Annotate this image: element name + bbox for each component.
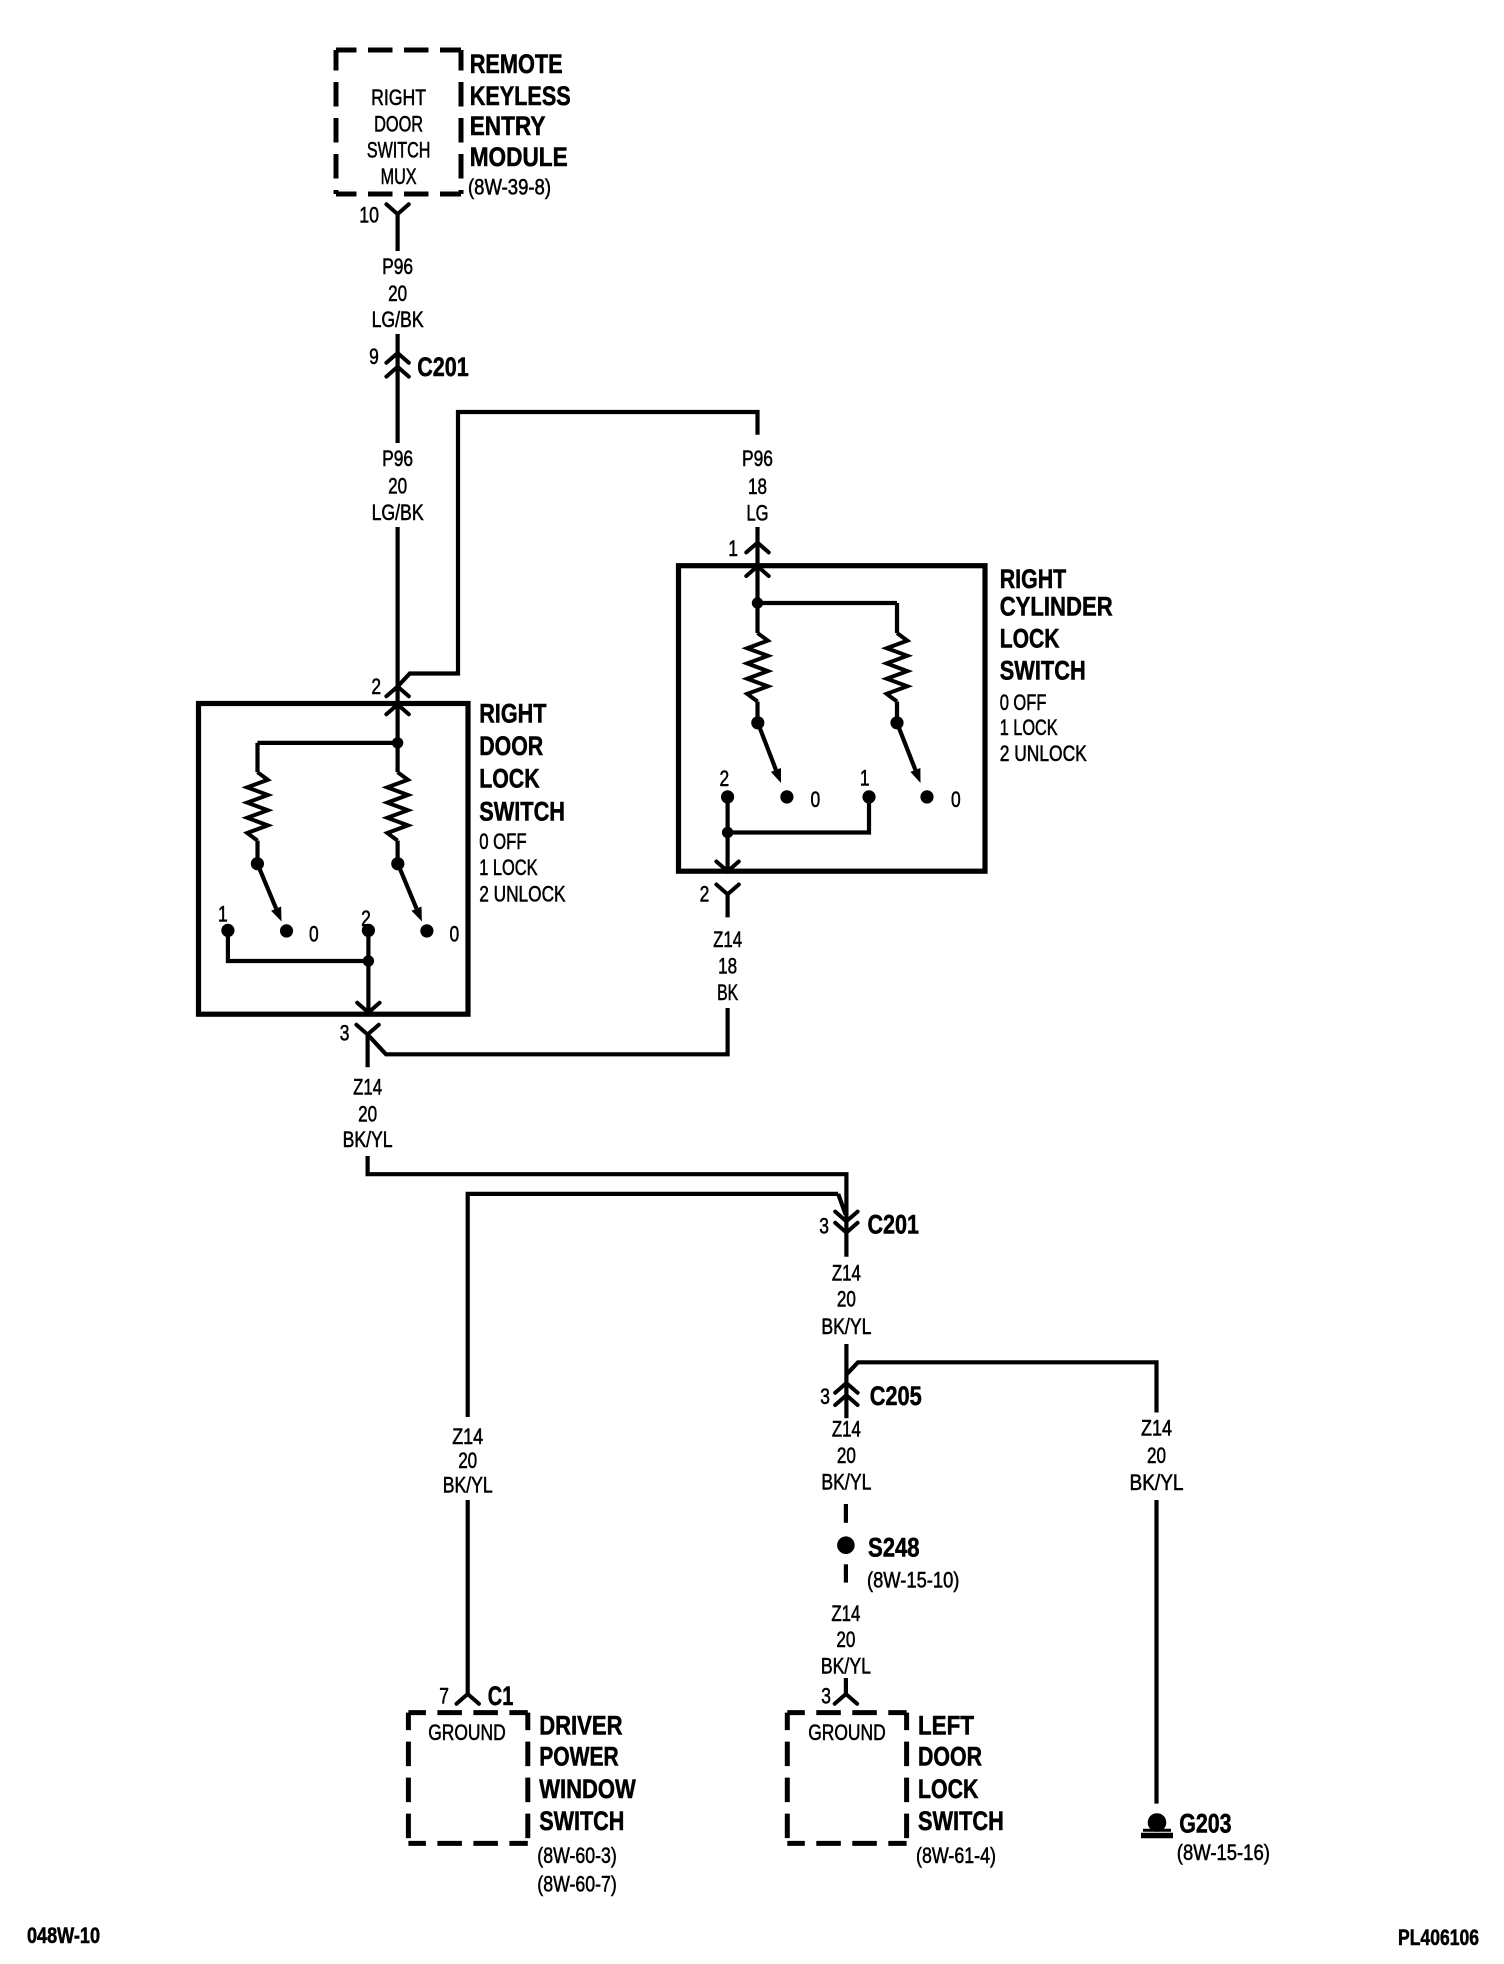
svg-text:20: 20	[388, 281, 407, 306]
svg-text:P96: P96	[742, 446, 773, 471]
resistor (left, cylinder lock switch)	[747, 603, 768, 717]
svg-text:RIGHT: RIGHT	[1000, 564, 1067, 594]
svg-text:C201: C201	[868, 1210, 920, 1240]
svg-text:2: 2	[700, 882, 710, 907]
svg-text:SWITCH: SWITCH	[367, 138, 431, 163]
svg-text:20: 20	[458, 1448, 477, 1473]
svg-text:(8W-15-16): (8W-15-16)	[1177, 1840, 1270, 1865]
wire: contact 1 to output node	[728, 803, 869, 833]
svg-text:20: 20	[1147, 1443, 1166, 1468]
svg-text:20: 20	[388, 473, 407, 498]
svg-text:LG/BK: LG/BK	[372, 307, 424, 332]
svg-text:3: 3	[340, 1020, 350, 1045]
contact 2 (cylinder lock switch)	[719, 766, 734, 804]
svg-text:Z14: Z14	[832, 1261, 861, 1286]
connector C201 pin 9 (in-line)	[369, 334, 469, 443]
svg-text:BK/YL: BK/YL	[343, 1127, 393, 1152]
svg-text:0 OFF: 0 OFF	[1000, 690, 1047, 715]
wire Z14 20 BK/YL to left door lock switch	[821, 1564, 871, 1694]
svg-text:1: 1	[728, 536, 738, 561]
svg-text:1 LOCK: 1 LOCK	[1000, 715, 1058, 740]
svg-text:CYLINDER: CYLINDER	[1000, 592, 1113, 622]
switch arm (left, cylinder lock switch)	[751, 716, 781, 783]
svg-text:2: 2	[361, 906, 371, 931]
svg-text:3: 3	[819, 1213, 829, 1238]
svg-text:Z14: Z14	[832, 1416, 861, 1441]
resistor (right, door lock switch)	[387, 743, 408, 858]
svg-text:Z14: Z14	[452, 1424, 483, 1449]
node: output junction (cylinder lock switch)	[722, 827, 733, 838]
connector pin 10 of module	[359, 203, 409, 228]
svg-text:BK/YL: BK/YL	[821, 1314, 871, 1339]
svg-text:MODULE: MODULE	[470, 142, 568, 172]
svg-text:PL406106: PL406106	[1398, 1925, 1479, 1950]
svg-text:(8W-60-7): (8W-60-7)	[537, 1872, 617, 1897]
wire Z14 below C205	[821, 1416, 871, 1523]
wire branch Z14 to ground G203	[846, 1362, 1183, 1803]
svg-text:(8W-61-4): (8W-61-4)	[916, 1843, 996, 1868]
svg-text:WINDOW: WINDOW	[539, 1774, 636, 1804]
svg-text:0: 0	[951, 787, 961, 812]
component box: DRIVER POWER WINDOW SWITCH (GROUND, dashed)	[408, 1713, 527, 1844]
svg-text:1: 1	[860, 765, 870, 790]
contact 0 right (cylinder lock switch)	[920, 787, 960, 812]
splice S248 (8W-15-10)	[837, 1533, 959, 1593]
svg-text:SWITCH: SWITCH	[1000, 656, 1086, 686]
svg-text:20: 20	[837, 1443, 856, 1468]
svg-text:LEFT: LEFT	[918, 1711, 974, 1741]
label: RIGHT DOOR LOCK SWITCH 0 OFF 1 LOCK 2 UNLOCK	[479, 699, 566, 907]
svg-text:RIGHT: RIGHT	[371, 85, 426, 110]
svg-text:2: 2	[371, 674, 381, 699]
svg-text:Z14: Z14	[831, 1601, 860, 1626]
svg-text:REMOTE: REMOTE	[470, 49, 563, 79]
resistor (left, door lock switch)	[247, 743, 268, 858]
svg-text:7: 7	[439, 1683, 449, 1708]
connector C201 pin 3 (in-line)	[819, 1210, 919, 1240]
svg-text:2 UNLOCK: 2 UNLOCK	[1000, 741, 1087, 766]
svg-text:S248: S248	[868, 1533, 920, 1563]
svg-text:18: 18	[748, 474, 767, 499]
svg-text:DRIVER: DRIVER	[539, 1711, 622, 1741]
component box: LEFT DOOR LOCK SWITCH (GROUND, dashed)	[787, 1713, 906, 1844]
svg-text:SWITCH: SWITCH	[539, 1806, 624, 1836]
svg-text:Z14: Z14	[713, 927, 742, 952]
svg-text:20: 20	[836, 1627, 855, 1652]
wire Z14 to C201 pin 3	[368, 1156, 847, 1257]
svg-text:P96: P96	[382, 254, 413, 279]
svg-text:0: 0	[309, 922, 319, 947]
label: RIGHT CYLINDER LOCK SWITCH 0 OFF 1 LOCK 2 UNLOCK	[1000, 564, 1113, 766]
wire branch Z14 to driver power window switch	[443, 1194, 846, 1694]
svg-text:3: 3	[821, 1683, 831, 1708]
svg-text:DOOR: DOOR	[918, 1742, 982, 1772]
contact 0 left (cylinder lock switch)	[780, 787, 820, 812]
svg-text:GROUND: GROUND	[428, 1720, 506, 1745]
svg-text:(8W-60-3): (8W-60-3)	[537, 1843, 617, 1868]
svg-text:DOOR: DOOR	[374, 112, 423, 137]
wire P96 20 LG/BK below C201	[372, 446, 424, 687]
svg-text:SWITCH: SWITCH	[479, 797, 565, 827]
svg-text:BK/YL: BK/YL	[821, 1470, 871, 1495]
svg-text:10: 10	[359, 203, 379, 228]
svg-text:9: 9	[369, 344, 379, 369]
svg-text:LOCK: LOCK	[1000, 624, 1060, 654]
contact 0 right (door lock switch)	[420, 922, 459, 947]
svg-text:048W-10: 048W-10	[27, 1923, 100, 1948]
module: RIGHT DOOR SWITCH MUX (dashed box)	[336, 50, 461, 194]
svg-text:0: 0	[449, 922, 459, 947]
wire: contact 1 to output node	[228, 937, 369, 961]
svg-text:3: 3	[820, 1384, 830, 1409]
contact 1 (cylinder lock switch)	[860, 765, 876, 803]
svg-text:1: 1	[218, 901, 228, 926]
svg-text:LOCK: LOCK	[918, 1774, 979, 1804]
svg-text:Z14: Z14	[353, 1074, 382, 1099]
svg-text:18: 18	[718, 954, 737, 979]
svg-text:BK/YL: BK/YL	[443, 1472, 493, 1497]
svg-text:SWITCH: SWITCH	[918, 1806, 1004, 1836]
label: DRIVER POWER WINDOW SWITCH (8W-60-3)(8W-60-7)	[537, 1711, 636, 1897]
svg-text:BK: BK	[717, 980, 738, 1005]
svg-text:LOCK: LOCK	[479, 764, 540, 794]
connector C1 pin 7 of driver power window switch	[439, 1681, 513, 1711]
connector pin 3 of right door lock switch	[340, 1020, 379, 1045]
svg-text:20: 20	[358, 1102, 377, 1127]
contact 0 left (door lock switch)	[280, 922, 319, 947]
svg-text:C1: C1	[488, 1681, 514, 1711]
svg-text:C201: C201	[417, 352, 469, 382]
connector pin 1 of right cylinder lock switch	[728, 536, 769, 576]
svg-text:1 LOCK: 1 LOCK	[479, 855, 538, 880]
svg-text:DOOR: DOOR	[479, 731, 543, 761]
svg-text:2 UNLOCK: 2 UNLOCK	[479, 882, 566, 907]
svg-text:(8W-15-10): (8W-15-10)	[867, 1568, 959, 1593]
connector pin 2 of right door lock switch	[371, 674, 408, 714]
wire Z14 20 BK/YL between C201 and C205	[821, 1261, 871, 1382]
connector C205 pin 3 (in-line)	[820, 1381, 921, 1418]
svg-text:RIGHT: RIGHT	[479, 699, 547, 729]
switch arm (left, door lock switch)	[251, 857, 282, 921]
svg-text:LG/BK: LG/BK	[372, 500, 424, 525]
sheet number 048W-10	[27, 1923, 100, 1948]
contact 1 (door lock switch)	[218, 901, 234, 937]
label: REMOTE KEYLESS ENTRY MODULE (8W-39-8)	[468, 49, 571, 200]
sheet code PL406106	[1398, 1925, 1479, 1950]
wire P96 20 LG/BK from module pin 10	[372, 214, 424, 332]
wire branch P96 18 LG to right cylinder lock switch	[398, 412, 773, 687]
connector pin 3 of left door lock switch	[821, 1683, 857, 1708]
switch arm (right, door lock switch)	[391, 857, 422, 921]
svg-text:BK/YL: BK/YL	[1130, 1470, 1184, 1495]
switch arm (right, cylinder lock switch)	[890, 716, 920, 783]
svg-text:C205: C205	[870, 1381, 922, 1411]
label: LEFT DOOR LOCK SWITCH (8W-61-4)	[916, 1711, 1004, 1868]
contact 2 (door lock switch)	[361, 906, 375, 937]
wire Z14 18 BK from cylinder switch	[368, 927, 742, 1054]
svg-text:G203: G203	[1179, 1809, 1231, 1839]
svg-text:POWER: POWER	[539, 1742, 619, 1772]
wire: pin1 into switch + node	[752, 543, 897, 609]
svg-text:0 OFF: 0 OFF	[479, 829, 526, 854]
svg-text:20: 20	[837, 1287, 856, 1312]
svg-text:2: 2	[719, 766, 729, 791]
svg-text:LG: LG	[747, 501, 769, 526]
connector pin 2 of cylinder lock switch	[700, 882, 739, 918]
resistor (right, cylinder lock switch)	[887, 603, 908, 717]
svg-text:P96: P96	[382, 446, 413, 471]
wire: pin2 into switch + node	[258, 687, 404, 749]
switch box: RIGHT CYLINDER LOCK SWITCH	[679, 566, 986, 872]
svg-text:BK/YL: BK/YL	[821, 1654, 871, 1679]
svg-text:ENTRY: ENTRY	[470, 111, 546, 141]
node: output junction (door lock switch)	[363, 955, 374, 966]
svg-text:GROUND: GROUND	[808, 1720, 886, 1745]
wire Z14 20 BK/YL below pin 3	[343, 1035, 393, 1152]
svg-text:Z14: Z14	[1141, 1416, 1172, 1441]
svg-text:(8W-39-8): (8W-39-8)	[468, 175, 551, 200]
svg-text:KEYLESS: KEYLESS	[470, 81, 571, 111]
svg-text:0: 0	[811, 787, 821, 812]
svg-text:MUX: MUX	[381, 164, 417, 189]
wire: contact 2 down to pin 2	[716, 803, 738, 871]
switch box: RIGHT DOOR LOCK SWITCH	[199, 704, 469, 1015]
ground G203 (8W-15-16)	[1141, 1809, 1270, 1865]
wire: contact 2 down to pin 3	[357, 937, 379, 1013]
